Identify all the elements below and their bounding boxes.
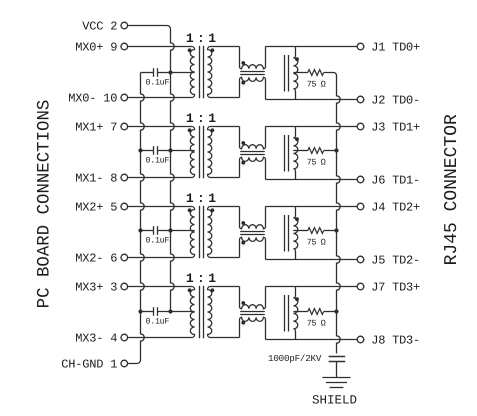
choke CM2 phase dot B <box>241 161 245 165</box>
capacitor C4 lead right / centre tap wire <box>158 311 195 313</box>
wire T3 secondary bottom to choke CM3 <box>210 257 240 259</box>
terminal circle pin MX1+ <box>121 123 128 130</box>
terminal circle J6 <box>357 176 364 183</box>
svg-text::: : <box>197 111 205 126</box>
wire resistor R2 to termination rail <box>324 150 337 152</box>
terminal circle pin MX3+ <box>121 283 128 290</box>
wire resistor R1 to termination rail (corner) <box>324 73 337 76</box>
svg-text:RJ45 CONNECTOR: RJ45 CONNECTOR <box>442 114 462 265</box>
termination rail (common node of 75 ohm resistors, hops over signal wires) <box>337 76 341 354</box>
transformer T1 phase dot primary <box>188 48 192 52</box>
resistor R4 75 ohm zigzag <box>308 309 324 315</box>
shield earth ground symbol <box>323 377 351 379</box>
transformer T3 core <box>199 206 201 258</box>
choke CM1 phase dot A <box>241 61 245 65</box>
terminal circle pin MX0+ <box>121 43 128 50</box>
choke CM2 phase dot A <box>241 141 245 145</box>
wire MX3- to T4 primary bottom <box>128 337 193 339</box>
choke CM4 winding A (top) <box>240 287 266 309</box>
svg-text:0.1uF: 0.1uF <box>146 78 170 88</box>
wire choke CM2 to pin J6 (bottom) <box>266 179 358 181</box>
resistor R3 75 ohm zigzag <box>308 228 324 234</box>
svg-text:MX0- 10: MX0- 10 <box>68 92 117 106</box>
wire MX0- to T1 primary bottom <box>128 97 193 99</box>
wire choke CM1 to pin J1 (top) <box>266 46 358 48</box>
choke CM4 phase dot A <box>241 301 245 305</box>
autotransformer W4 phase dot <box>295 297 299 301</box>
svg-text:J8 TD3-: J8 TD3- <box>371 334 420 348</box>
wire top line to autotransformer W3 <box>295 207 297 216</box>
ground rail (hops over signal wires, collects 0.1uF capacitors) <box>141 73 145 361</box>
junction dot VCC rail / centre tap 2 <box>168 148 172 152</box>
svg-text:1: 1 <box>208 111 216 126</box>
svg-text:75 Ω: 75 Ω <box>307 158 326 168</box>
junction dot ground rail / capacitor C3 <box>138 228 142 232</box>
wire choke CM3 to pin J5 (bottom) <box>266 259 358 261</box>
terminal circle J8 <box>357 336 364 343</box>
svg-text:75 Ω: 75 Ω <box>307 319 326 329</box>
choke CM2 winding B (bottom) <box>240 157 266 179</box>
svg-text:1: 1 <box>186 111 194 126</box>
choke CM2 winding A (top) <box>240 127 266 149</box>
terminal circle J4 <box>357 203 364 210</box>
junction dot termination rail / R3 <box>334 228 338 232</box>
wire MX3+ to T4 primary top <box>128 286 193 288</box>
autotransformer W3 core <box>284 215 286 252</box>
junction dot VCC rail / centre tap 3 <box>168 228 172 232</box>
transformer T1 phase dot secondary <box>211 48 215 52</box>
svg-text:J3 TD1+: J3 TD1+ <box>371 121 420 135</box>
terminal circle pin VCC <box>121 22 128 29</box>
transformer T3 phase dot secondary <box>211 208 215 212</box>
choke CM1 core <box>240 71 265 73</box>
svg-text:MX1+ 7: MX1+ 7 <box>75 121 117 135</box>
wire T2 secondary bottom to choke CM2 <box>210 177 240 179</box>
terminal circle pin MX3- <box>121 334 128 341</box>
transformer T2 primary winding <box>190 127 194 178</box>
capacitor C3 0.1uF lead left <box>141 230 154 232</box>
capacitor C4 0.1uF lead left <box>141 311 154 313</box>
junction dot VCC rail / centre tap 4 <box>168 309 172 313</box>
wire MX0+ to T1 primary top <box>128 46 193 48</box>
terminal circle pin MX0- <box>121 94 128 101</box>
wire MX1+ to T2 primary top <box>128 126 193 128</box>
svg-text::: : <box>197 271 205 286</box>
transformer T1 core <box>199 46 201 99</box>
wire T3 secondary top to choke CM3 <box>210 206 240 208</box>
transformer T3 phase dot primary <box>188 208 192 212</box>
svg-text:J2 TD0-: J2 TD0- <box>371 94 420 108</box>
wire choke CM4 to pin J8 (bottom) <box>266 339 358 341</box>
svg-text:MX2+ 5: MX2+ 5 <box>75 201 117 215</box>
resistor R2 75 ohm zigzag <box>308 148 324 154</box>
svg-text:J5 TD2-: J5 TD2- <box>371 254 420 268</box>
terminal circle pin MX2+ <box>121 203 128 210</box>
svg-text:1: 1 <box>186 31 194 46</box>
wire VCC pin to VCC rail <box>128 26 171 30</box>
capacitor 1000pF/2KV plates <box>329 356 346 358</box>
svg-text:J6 TD1-: J6 TD1- <box>371 174 420 188</box>
choke CM4 winding B (bottom) <box>240 317 266 339</box>
capacitor C1 0.1uF lead left <box>141 72 154 74</box>
choke CM3 winding B (bottom) <box>240 237 266 259</box>
svg-text:J1 TD0+: J1 TD0+ <box>371 41 420 55</box>
transformer T4 primary winding <box>190 287 194 338</box>
terminal circle J3 <box>357 123 364 130</box>
svg-text:VCC 2: VCC 2 <box>82 20 117 34</box>
choke CM3 core <box>240 231 265 233</box>
wire W2 tap to resistor R2 <box>293 150 307 152</box>
capacitor C3 plates <box>153 226 155 235</box>
autotransformer W1 core <box>284 55 286 92</box>
autotransformer W1 phase dot <box>295 57 299 61</box>
svg-text:1: 1 <box>186 191 194 206</box>
wire CH-GND pin to ground rail <box>128 360 141 364</box>
svg-text:75 Ω: 75 Ω <box>307 238 326 248</box>
choke CM1 phase dot B <box>241 81 245 85</box>
wire resistor R3 to termination rail <box>324 230 337 232</box>
capacitor C1 lead right / centre tap wire <box>158 72 195 74</box>
wire capacitor to shield ground <box>336 362 338 378</box>
transformer T3 secondary winding <box>207 207 211 258</box>
svg-text:0.1uF: 0.1uF <box>146 236 170 246</box>
svg-text::: : <box>197 191 205 206</box>
wire W4 tap to resistor R4 <box>293 311 307 313</box>
wire T4 secondary top to choke CM4 <box>210 286 240 288</box>
terminal circle pin CH-GND <box>121 360 128 367</box>
choke CM2 core <box>240 151 265 153</box>
svg-text:J4 TD2+: J4 TD2+ <box>371 201 420 215</box>
autotransformer W3 winding <box>293 216 297 260</box>
terminal circle pin MX2- <box>121 254 128 261</box>
wire choke CM2 to pin J3 (top) <box>266 126 358 128</box>
wire resistor R4 to termination rail <box>324 311 337 313</box>
wire choke CM4 to pin J7 (top) <box>266 286 358 288</box>
wire choke CM3 to pin J4 (top) <box>266 206 358 208</box>
svg-text:MX1- 8: MX1- 8 <box>75 172 117 186</box>
capacitor C2 0.1uF lead left <box>141 150 154 152</box>
svg-text:1: 1 <box>208 271 216 286</box>
wire T1 secondary bottom to choke CM1 <box>210 97 240 99</box>
choke CM4 core <box>240 311 265 313</box>
transformer T4 phase dot secondary <box>211 288 215 292</box>
transformer T3 primary winding <box>190 207 194 258</box>
terminal circle J7 <box>357 283 364 290</box>
transformer T1 secondary winding <box>207 47 211 98</box>
svg-text:75 Ω: 75 Ω <box>307 80 326 90</box>
autotransformer W3 phase dot <box>295 217 299 221</box>
wire W3 tap to resistor R3 <box>293 230 307 232</box>
choke CM4 phase dot B <box>241 321 245 325</box>
VCC rail (hops over signal wires, feeds transformer centre taps) <box>171 29 175 312</box>
junction dot termination rail / R2 <box>334 148 338 152</box>
capacitor C1 plates <box>153 68 155 77</box>
transformer T2 phase dot primary <box>188 128 192 132</box>
svg-text:1: 1 <box>208 31 216 46</box>
junction dot ground rail / capacitor C2 <box>138 148 142 152</box>
svg-text:PC BOARD CONNECTIONS: PC BOARD CONNECTIONS <box>35 100 54 309</box>
svg-text:1: 1 <box>186 271 194 286</box>
svg-text:MX0+ 9: MX0+ 9 <box>75 41 117 55</box>
wire choke CM1 to pin J2 (bottom) <box>266 99 358 101</box>
junction dot termination rail / R4 <box>334 309 338 313</box>
wire MX2+ to T3 primary top <box>128 206 193 208</box>
autotransformer W2 core <box>284 135 286 172</box>
choke CM3 phase dot A <box>241 221 245 225</box>
transformer T1 primary winding <box>190 47 194 98</box>
autotransformer W2 winding <box>293 136 297 180</box>
transformer T2 secondary winding <box>207 127 211 178</box>
choke CM3 phase dot B <box>241 241 245 245</box>
resistor R1 75 ohm zigzag <box>308 70 324 76</box>
autotransformer W4 core <box>284 295 286 332</box>
transformer T4 core <box>199 286 201 339</box>
capacitor C2 lead right / centre tap wire <box>158 150 195 152</box>
wire top line to autotransformer W1 <box>295 47 297 56</box>
wire W1 tap to resistor R1 <box>293 72 307 74</box>
capacitor C3 lead right / centre tap wire <box>158 230 195 232</box>
transformer T4 phase dot primary <box>188 288 192 292</box>
terminal circle J2 <box>357 96 364 103</box>
autotransformer W4 winding <box>293 296 297 340</box>
wire top line to autotransformer W4 <box>295 287 297 296</box>
svg-text:0.1uF: 0.1uF <box>146 156 170 166</box>
capacitor C2 plates <box>153 146 155 155</box>
terminal circle pin MX1- <box>121 174 128 181</box>
wire MX2- to T3 primary bottom <box>128 257 193 259</box>
choke CM1 winding B (bottom) <box>240 77 266 99</box>
junction dot ground rail / capacitor C4 <box>138 309 142 313</box>
wire T1 secondary top to choke CM1 <box>210 46 240 48</box>
terminal circle J5 <box>357 256 364 263</box>
svg-text:MX3- 4: MX3- 4 <box>75 332 117 346</box>
wire T2 secondary top to choke CM2 <box>210 126 240 128</box>
wire top line to autotransformer W2 <box>295 127 297 136</box>
svg-text:SHIELD: SHIELD <box>312 393 357 407</box>
svg-text:J7 TD3+: J7 TD3+ <box>371 281 420 295</box>
autotransformer W1 winding <box>293 56 297 100</box>
svg-text::: : <box>197 31 205 46</box>
svg-text:1: 1 <box>208 191 216 206</box>
svg-text:MX3+ 3: MX3+ 3 <box>75 281 117 295</box>
junction dot VCC rail / centre tap 1 <box>168 70 172 74</box>
choke CM3 winding A (top) <box>240 207 266 229</box>
svg-text:CH-GND 1: CH-GND 1 <box>61 358 117 372</box>
autotransformer W2 phase dot <box>295 137 299 141</box>
transformer T2 phase dot secondary <box>211 128 215 132</box>
svg-text:0.1uF: 0.1uF <box>146 317 170 327</box>
transformer T4 secondary winding <box>207 287 211 338</box>
svg-text:1000pF/2KV: 1000pF/2KV <box>268 353 322 364</box>
wire MX1- to T2 primary bottom <box>128 177 193 179</box>
choke CM1 winding A (top) <box>240 47 266 69</box>
transformer T2 core <box>199 126 201 179</box>
svg-text:MX2- 6: MX2- 6 <box>75 252 117 266</box>
terminal circle J1 <box>357 43 364 50</box>
wire T4 secondary bottom to choke CM4 <box>210 337 240 339</box>
capacitor C4 plates <box>153 307 155 316</box>
